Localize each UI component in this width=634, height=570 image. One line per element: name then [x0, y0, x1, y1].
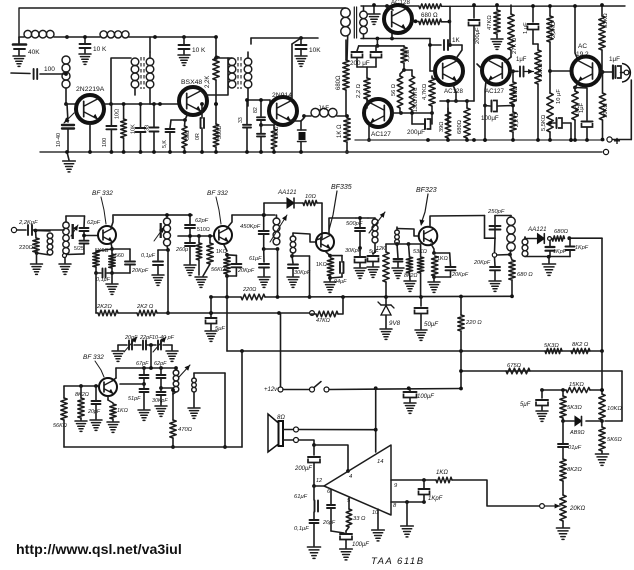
- svg-text:9V8: 9V8: [389, 320, 401, 327]
- svg-text:20KΩ: 20KΩ: [569, 506, 586, 512]
- svg-text:62pF: 62pF: [195, 218, 209, 224]
- resistor 1K e: [224, 245, 227, 251]
- ground: [155, 405, 167, 407]
- wire fb: [120, 383, 144, 385]
- capacitor 40K: [18, 37, 20, 43]
- capacitor 0,1uF if1: [158, 249, 168, 251]
- wire collector c: [115, 368, 117, 378]
- node base: [64, 102, 68, 106]
- svg-text:BF323: BF323: [416, 187, 437, 194]
- resistor 560: [111, 249, 113, 254]
- wire: [161, 387, 173, 389]
- speaker SP: [279, 421, 284, 446]
- svg-text:8K2Ω: 8K2Ω: [567, 467, 582, 473]
- svg-text:1KΩ: 1KΩ: [436, 470, 448, 476]
- svg-text:8K2Ω: 8K2Ω: [404, 273, 417, 279]
- svg-text:33: 33: [238, 117, 244, 123]
- capacitor 1uF vert: [532, 6, 534, 22]
- svg-text:+12v: +12v: [264, 387, 278, 393]
- terminal ring: [63, 254, 67, 258]
- wire trimmer row: [118, 344, 127, 346]
- ground under 40K: [13, 55, 25, 57]
- resistor 680 r: [466, 101, 468, 108]
- capacitor 1KpF b: [569, 238, 571, 246]
- svg-text:1KΩ: 1KΩ: [437, 256, 448, 262]
- resistor 4,7K: [431, 76, 433, 78]
- capacitor 30KpF osc: [358, 246, 362, 250]
- transformer T5 core: [353, 7, 355, 38]
- capacitor 51pF: [143, 384, 145, 388]
- capacitor 100 bypass: [110, 104, 112, 125]
- wire: [173, 392, 176, 394]
- svg-text:1K Ω: 1K Ω: [337, 124, 343, 138]
- wire antenna feed: [11, 72, 30, 75]
- svg-text:33 Ω: 33 Ω: [353, 516, 366, 522]
- wire: [524, 237, 526, 239]
- svg-text:0,1μF: 0,1μF: [141, 253, 156, 259]
- inductor input coil: [47, 233, 53, 239]
- terminal ring B: [310, 311, 315, 316]
- wire collector b: [227, 215, 232, 228]
- wire: [111, 103, 140, 105]
- svg-text:2N914: 2N914: [272, 92, 292, 99]
- svg-text:1KΩ: 1KΩ: [216, 249, 227, 255]
- transistor BF332 b: [214, 226, 232, 244]
- svg-text:12: 12: [316, 478, 322, 484]
- capacitor 0,1uF v: [562, 421, 564, 443]
- svg-text:220Ω: 220Ω: [242, 287, 256, 293]
- svg-text:100: 100: [102, 138, 108, 147]
- wire base BSX48: [150, 103, 179, 105]
- svg-text:AA121: AA121: [527, 226, 547, 233]
- capacitor 2,2KpF: [27, 225, 29, 235]
- svg-text:50μF: 50μF: [424, 321, 439, 328]
- inductor det link: [522, 239, 528, 245]
- transformer T5 primary: [341, 8, 350, 17]
- svg-text:AC128: AC128: [444, 88, 463, 95]
- svg-text:2,2Ω: 2,2Ω: [405, 49, 411, 62]
- resistor 10: [123, 104, 125, 119]
- ground: [307, 546, 320, 548]
- svg-text:10-40 pF: 10-40 pF: [152, 335, 175, 341]
- svg-text:20KpF: 20KpF: [237, 268, 255, 274]
- svg-text:130Ω NTC: 130Ω NTC: [413, 87, 419, 112]
- svg-text:10KΩ: 10KΩ: [538, 63, 544, 78]
- svg-text:4: 4: [349, 474, 352, 480]
- wire emitter: [185, 113, 188, 120]
- diode AA121 a: [287, 198, 294, 208]
- svg-text:680 Ω: 680 Ω: [517, 272, 533, 278]
- svg-text:500pF: 500pF: [346, 221, 363, 227]
- resistor pot 10K: [537, 44, 539, 50]
- svg-text:62pF: 62pF: [87, 220, 101, 226]
- svg-text:100μF: 100μF: [481, 115, 499, 122]
- resistor 2,2 b: [364, 78, 370, 99]
- capacitor 10-40 trimmer: [67, 104, 68, 122]
- inductor link osc: [395, 230, 400, 235]
- svg-text:AA121: AA121: [277, 189, 297, 196]
- capacitor 30KpF: [292, 256, 293, 263]
- ground: [107, 421, 119, 423]
- svg-text:680 Ω: 680 Ω: [421, 12, 438, 19]
- svg-text:12K: 12K: [376, 246, 386, 252]
- wire: [357, 66, 376, 68]
- ground: [372, 529, 385, 531]
- wire: [67, 36, 100, 38]
- resistor 2K2 b: [137, 310, 157, 316]
- inductor link2: [290, 236, 296, 242]
- wire: [301, 116, 304, 121]
- svg-text:33KΩ: 33KΩ: [603, 13, 609, 28]
- capacitor 100uF: [485, 81, 486, 106]
- wire 675 line: [461, 370, 622, 372]
- svg-text:10 K: 10 K: [93, 46, 107, 53]
- svg-text:1KpF: 1KpF: [428, 496, 443, 502]
- wire base: [477, 64, 481, 68]
- transformer T2 secondary: [146, 58, 154, 66]
- svg-text:2K2 Ω: 2K2 Ω: [136, 304, 154, 310]
- resistor 47K: [496, 5, 498, 10]
- resistor 470: [172, 394, 174, 420]
- transformer IF1 core: [160, 223, 162, 238]
- svg-text:1μF: 1μF: [609, 56, 620, 63]
- wire 15K line: [542, 389, 566, 391]
- ground: [329, 278, 331, 281]
- resistor 100: [261, 124, 274, 126]
- capacitor link: [397, 244, 398, 258]
- node rail A dots: [225, 295, 229, 299]
- ground: [152, 274, 164, 276]
- svg-text:9: 9: [394, 483, 398, 489]
- svg-text:1 μF: 1 μF: [523, 22, 529, 34]
- svg-text:15KΩ: 15KΩ: [513, 86, 519, 101]
- zener 9V8: [385, 297, 387, 304]
- svg-text:10KΩ: 10KΩ: [603, 103, 609, 118]
- ground: [287, 276, 299, 278]
- wire emitter a: [111, 243, 112, 248]
- svg-text:5K6Ω: 5K6Ω: [607, 437, 622, 443]
- svg-text:2,2 Ω: 2,2 Ω: [514, 112, 520, 127]
- resistor 10K r: [602, 72, 604, 93]
- capacitor 1uF out: [600, 71, 613, 73]
- svg-text:10K: 10K: [309, 47, 321, 54]
- ground: [166, 350, 178, 352]
- svg-text:470Ω: 470Ω: [178, 427, 193, 433]
- wire top supply rail: [19, 8, 344, 45]
- svg-text:30KpF: 30KpF: [152, 398, 168, 404]
- transformer IF1: [164, 218, 171, 225]
- capacitor 82 a: [260, 100, 262, 116]
- resistor 680 d: [510, 255, 512, 261]
- core bar: [72, 224, 74, 239]
- resistor 1K e3: [431, 244, 434, 253]
- transistor AC192: [572, 57, 601, 86]
- wire rail B: [96, 312, 98, 314]
- wire rail plus: [355, 139, 604, 141]
- capacitor 61uF: [263, 249, 265, 262]
- ground main left: [67, 152, 69, 160]
- resistor 8K2 h: [571, 348, 590, 353]
- svg-text:200μF: 200μF: [407, 129, 425, 136]
- capacitor 20KpF d: [494, 258, 497, 267]
- svg-text:47KΩ: 47KΩ: [316, 318, 330, 324]
- node tap: [64, 72, 68, 76]
- capacitor 30KpF c: [160, 388, 162, 391]
- svg-text:100Ω: 100Ω: [274, 126, 280, 139]
- svg-text:100μF: 100μF: [417, 394, 434, 400]
- capacitor 33: [246, 100, 248, 124]
- inductor osc tank: [372, 219, 378, 225]
- svg-text:53KΩ: 53KΩ: [413, 249, 427, 255]
- inductor tapped coil: [62, 56, 70, 64]
- inductor osc coil2: [192, 378, 197, 383]
- ground: [491, 38, 503, 40]
- svg-text:67pF: 67pF: [136, 361, 149, 367]
- svg-text:BF335: BF335: [331, 184, 352, 191]
- capacitor 62pF pair: [83, 216, 86, 227]
- ground: [195, 276, 207, 278]
- capacitor 20KpF m: [112, 248, 130, 250]
- svg-text:200μF: 200μF: [294, 466, 312, 472]
- wire main drop: [601, 351, 603, 394]
- terminal ring det: [494, 238, 497, 252]
- capacitor 5K: [170, 120, 171, 128]
- svg-text:0R: 0R: [195, 133, 201, 140]
- wire emitter: [291, 120, 301, 121]
- svg-text:100μF: 100μF: [352, 542, 369, 548]
- svg-text:5K3Ω: 5K3Ω: [567, 405, 582, 411]
- svg-text:10Ω: 10Ω: [115, 109, 121, 119]
- wire top rail right: [361, 5, 419, 7]
- capacitor 33: [153, 104, 155, 127]
- capacitor 22pF: [142, 341, 144, 350]
- resistor 2K2 a: [98, 310, 118, 316]
- capacitor 200uF vert: [473, 5, 475, 18]
- capacitor 20pF c: [95, 386, 97, 400]
- svg-text:5K3Ω: 5K3Ω: [544, 343, 559, 349]
- wire osc mid: [150, 345, 152, 368]
- svg-text:100: 100: [44, 66, 55, 73]
- capacitor 100uF s: [409, 388, 411, 391]
- wire: [449, 6, 451, 45]
- capacitor 200uF a: [357, 46, 359, 51]
- ground: [595, 453, 608, 455]
- ground: [415, 329, 427, 331]
- wire osc supply drop: [241, 351, 243, 447]
- wire supply drop: [210, 297, 212, 313]
- transformer T5 secondary: [360, 11, 368, 19]
- wire: [316, 203, 322, 240]
- terminal wiper: [540, 504, 545, 509]
- transistor BF332 a: [98, 226, 116, 244]
- svg-text:14: 14: [377, 459, 383, 465]
- capacitor 260u: [189, 236, 191, 242]
- ground: [36, 253, 38, 263]
- wire vol feed: [452, 480, 539, 506]
- svg-text:AB9Ω: AB9Ω: [569, 430, 585, 436]
- node J1: [65, 35, 69, 39]
- node: [83, 35, 87, 39]
- switch S1: [310, 387, 315, 392]
- svg-text:510Ω: 510Ω: [197, 227, 210, 233]
- wire: [117, 345, 119, 350]
- capacitor 1K: [430, 44, 441, 46]
- wire under coil: [397, 243, 421, 245]
- ground: [90, 419, 102, 421]
- wire collector BSX48: [200, 88, 228, 95]
- wire collector AC192: [575, 6, 578, 60]
- wire IF1 bottom: [167, 246, 168, 250]
- capacitor 100: [33, 69, 35, 79]
- diode AF: [575, 416, 582, 425]
- wire base BF332a: [84, 235, 98, 237]
- svg-text:BF 332: BF 332: [83, 354, 104, 361]
- resistor 5K3 h: [545, 348, 562, 353]
- resistor 1K c: [107, 396, 109, 400]
- ground: [205, 330, 217, 332]
- resistor 510: [196, 243, 202, 260]
- capacitor 62pF c: [160, 368, 162, 374]
- wire emitter row: [361, 38, 430, 40]
- transformer IF3: [507, 217, 515, 225]
- wire switch feed: [280, 313, 282, 387]
- wire rail minus: [40, 151, 602, 153]
- resistor 33 a: [346, 509, 352, 527]
- svg-text:20pF: 20pF: [87, 409, 101, 415]
- ground: [367, 266, 379, 268]
- wire pin4: [314, 445, 348, 471]
- wire collector AC127b: [505, 57, 511, 62]
- capacitor 10uF: [550, 122, 555, 124]
- node: [600, 349, 604, 353]
- svg-text:62pF: 62pF: [154, 361, 167, 367]
- svg-text:5K6Ω: 5K6Ω: [95, 248, 108, 254]
- resistor 2,2 r: [512, 106, 514, 113]
- svg-text:AC127: AC127: [371, 131, 391, 138]
- wire collector 2N914: [291, 44, 293, 98]
- wire link to base: [293, 233, 316, 242]
- svg-text:8: 8: [393, 503, 397, 509]
- capacitor 62pF b: [189, 215, 191, 224]
- wire to BF323 base: [397, 229, 419, 237]
- svg-text:260μ: 260μ: [175, 247, 188, 253]
- node: [345, 114, 349, 118]
- capacitor 50uF: [420, 297, 422, 306]
- svg-text:2K2Ω: 2K2Ω: [96, 304, 112, 310]
- wire collector BF335: [329, 218, 356, 234]
- wire base: [66, 103, 76, 105]
- node: [149, 343, 153, 347]
- ground: [79, 53, 91, 55]
- resistor 1K out: [575, 83, 578, 88]
- capacitor 1KpF a: [549, 240, 551, 246]
- svg-text:56KΩ: 56KΩ: [53, 423, 67, 429]
- svg-text:39Ω: 39Ω: [439, 122, 445, 132]
- resistor 12K: [385, 244, 387, 252]
- ground: [295, 55, 307, 57]
- svg-text:2,2KΩ: 2,2KΩ: [551, 21, 557, 38]
- wire collector AC127a: [367, 99, 369, 102]
- svg-text:TAA 611B: TAA 611B: [371, 556, 425, 567]
- svg-text:5/25: 5/25: [74, 246, 84, 252]
- ground: [340, 548, 353, 550]
- svg-text:680Ω: 680Ω: [457, 119, 463, 134]
- resistor 220: [35, 231, 38, 239]
- resistor 2,2 a: [401, 47, 407, 63]
- ground: [489, 280, 501, 282]
- inductor L2: [100, 31, 107, 38]
- resistor 2,2K: [215, 37, 217, 56]
- capacitor 20KpF c: [434, 252, 450, 254]
- svg-text:BF 332: BF 332: [207, 190, 228, 197]
- resistor 220 rail: [241, 294, 265, 300]
- svg-text:220 Ω: 220 Ω: [465, 320, 482, 326]
- svg-text:26pF: 26pF: [322, 520, 336, 526]
- ground: [536, 410, 548, 412]
- transistor BF332 c: [99, 378, 117, 396]
- wire diode row: [563, 420, 574, 422]
- capacitor 5uF: [368, 255, 379, 257]
- ground: [354, 267, 366, 269]
- resistor 56K: [209, 236, 211, 243]
- svg-text:560: 560: [115, 253, 124, 259]
- terminal: [278, 387, 283, 392]
- wire det out: [569, 237, 602, 239]
- resistor 1K e2: [325, 251, 330, 256]
- svg-text:47KΩ: 47KΩ: [487, 15, 493, 30]
- transistor 2N914: [269, 97, 297, 125]
- wire: [283, 389, 310, 391]
- svg-text:8Ω: 8Ω: [277, 415, 285, 421]
- crystal X1: [298, 129, 307, 131]
- svg-text:220Ω: 220Ω: [19, 245, 34, 251]
- capacitor 200uF b: [375, 46, 377, 51]
- ground: [373, 5, 375, 13]
- wire: [193, 392, 195, 407]
- resistor 560: [215, 104, 217, 124]
- wire pin9 out: [391, 479, 436, 481]
- resistor 10K v: [599, 394, 605, 420]
- svg-text:AC127: AC127: [485, 88, 504, 95]
- resistor 47K h: [311, 313, 316, 315]
- resistor 5K6 v: [601, 421, 603, 427]
- capacitor 100uF b: [345, 531, 347, 533]
- resistor 33K: [601, 5, 603, 16]
- resistor 39: [447, 108, 449, 112]
- ground: [75, 420, 87, 422]
- wire base AC127a: [392, 112, 400, 114]
- transistor BF335: [316, 233, 334, 251]
- svg-text:2N2219A: 2N2219A: [76, 86, 105, 93]
- resistor 5,5K: [549, 71, 551, 93]
- wire: [440, 100, 456, 102]
- svg-text:http://www.qsl.net/va3iul: http://www.qsl.net/va3iul: [16, 542, 182, 558]
- wire pin8: [391, 501, 424, 503]
- ground: [258, 276, 270, 278]
- svg-text:61μF: 61μF: [294, 494, 308, 500]
- op-amp TAA611B: [324, 445, 391, 515]
- svg-text:5,5KΩ: 5,5KΩ: [541, 114, 547, 131]
- resistor 56K c: [63, 386, 65, 398]
- wire to rail B: [95, 273, 97, 313]
- wire: [216, 57, 228, 59]
- capacitor C 10K (1st): [84, 37, 86, 43]
- resistor 680: [345, 40, 347, 60]
- ground: [404, 280, 416, 282]
- capacitor 61uF i: [313, 486, 315, 500]
- wire pot arrow: [525, 71, 534, 73]
- node: [567, 236, 571, 240]
